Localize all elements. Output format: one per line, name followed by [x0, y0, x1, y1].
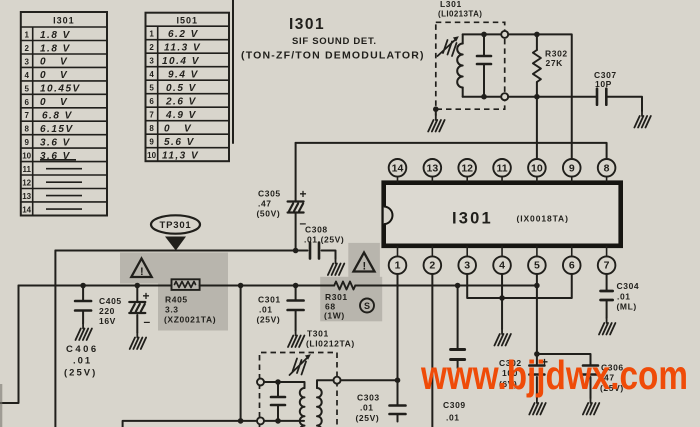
svg-text:10: 10 — [531, 162, 543, 174]
svg-text:(XZ0021TA): (XZ0021TA) — [164, 315, 216, 325]
T301 adjustable core arrow — [290, 358, 308, 376]
terminal T301 left bottom — [257, 417, 264, 424]
pin 1 — [389, 246, 407, 274]
svg-text:–: – — [144, 315, 151, 329]
svg-text:6: 6 — [24, 98, 29, 107]
capacitor C305 — [295, 143, 297, 251]
junction C305/C308 node — [293, 248, 299, 254]
svg-text:220: 220 — [99, 306, 115, 316]
svg-text:R301: R301 — [325, 292, 348, 302]
wire main bus (left segment) — [19, 285, 172, 287]
svg-text:7: 7 — [604, 260, 610, 272]
svg-text:C304: C304 — [617, 281, 640, 291]
svg-text:3.3: 3.3 — [165, 305, 179, 315]
svg-text:(LI0212TA): (LI0212TA) — [306, 339, 355, 349]
ground C306 — [583, 398, 599, 415]
svg-text:2.6 V: 2.6 V — [165, 97, 197, 108]
T301 internal top wire — [264, 381, 304, 383]
svg-text:S: S — [364, 301, 370, 311]
svg-text:(TON-ZF/TON DEMODULATOR): (TON-ZF/TON DEMODULATOR) — [241, 50, 425, 62]
svg-text:2: 2 — [24, 44, 29, 53]
svg-text:.01 (25V): .01 (25V) — [304, 235, 344, 245]
svg-text:13: 13 — [427, 162, 439, 174]
svg-text:4: 4 — [499, 260, 505, 272]
svg-text:10P: 10P — [595, 79, 612, 89]
capacitor C406 — [82, 286, 84, 324]
svg-text:C308: C308 — [305, 225, 328, 235]
T301 primary winding — [304, 382, 306, 388]
svg-text:C309: C309 — [443, 400, 466, 410]
L301 internal bottom wire — [463, 96, 502, 98]
shaded highlight area left (R405 zone) — [120, 253, 228, 284]
pin 8 — [598, 159, 616, 183]
pin 5 — [528, 246, 546, 274]
R301 value label — [324, 292, 348, 321]
IC U I301 body — [384, 183, 621, 246]
junction pin1/C303 — [395, 377, 401, 383]
wire pin 5 drop — [536, 274, 538, 354]
svg-text:C305: C305 — [258, 189, 281, 199]
svg-text:16V: 16V — [99, 316, 116, 326]
pin 3 — [458, 246, 476, 274]
pin 4 — [493, 246, 511, 274]
svg-text:5.6 V: 5.6 V — [164, 137, 195, 148]
svg-text:(LI0213TA): (LI0213TA) — [438, 10, 482, 19]
coil unit L301 label — [438, 0, 482, 19]
svg-text:6: 6 — [149, 97, 154, 106]
C307 value label — [594, 70, 617, 89]
svg-text:0 V: 0 V — [164, 124, 192, 135]
resistor R301 — [334, 282, 355, 290]
svg-text:.47: .47 — [258, 199, 272, 209]
wire T301 right terminal to pin 1 line — [341, 379, 398, 381]
C304 value label — [617, 281, 640, 312]
svg-text:5: 5 — [149, 84, 154, 93]
svg-text:C406: C406 — [66, 344, 99, 355]
svg-text:C303: C303 — [357, 393, 380, 403]
wire riser to bottom rail — [240, 286, 242, 421]
warning triangle left — [131, 259, 151, 279]
ground pin 4 — [494, 329, 510, 346]
junction R302 bottom — [534, 94, 540, 100]
resistor R302 — [536, 34, 538, 96]
terminal T301 left top — [257, 379, 264, 386]
scan page edge streak — [0, 384, 2, 427]
svg-text:L301: L301 — [440, 0, 462, 9]
capacitor C306 — [590, 377, 592, 398]
svg-text:6: 6 — [569, 260, 575, 272]
svg-text:1: 1 — [395, 260, 401, 272]
svg-text:11: 11 — [22, 165, 31, 174]
svg-text:5: 5 — [24, 84, 29, 93]
inductor L301 winding — [462, 34, 464, 96]
svg-text:10.45V: 10.45V — [40, 84, 81, 95]
wire C305 node to pin 8 — [296, 143, 607, 159]
svg-text:1.8 V: 1.8 V — [40, 30, 71, 41]
T301 secondary winding — [316, 380, 318, 388]
wire TP301 node — [55, 250, 295, 252]
capacitor C309 — [457, 286, 459, 369]
svg-text:9.4 V: 9.4 V — [168, 70, 199, 81]
svg-text:8: 8 — [149, 124, 154, 133]
svg-text:9: 9 — [569, 162, 575, 174]
svg-text:12: 12 — [461, 162, 473, 174]
svg-text:C405: C405 — [99, 296, 122, 306]
capacitor C304 — [601, 291, 613, 300]
C301 value label — [257, 295, 281, 325]
C405 value label — [99, 296, 122, 326]
svg-text:(25V): (25V) — [356, 413, 380, 423]
svg-text:13: 13 — [22, 192, 31, 201]
wire pin 2 drop (off-page) — [431, 274, 433, 427]
wire stub from top edge (off-page) — [232, 0, 234, 143]
wire T301 secondary to right terminal — [318, 379, 334, 381]
C306 value label — [600, 363, 624, 394]
wire to C306 — [537, 354, 591, 365]
pin 14 — [389, 159, 407, 183]
svg-text:.01: .01 — [259, 305, 273, 315]
warning triangle right — [354, 253, 375, 273]
voltage table I501 (right) — [146, 13, 230, 162]
transformer T301 label — [306, 329, 355, 349]
ground C405 — [130, 333, 146, 350]
svg-text:3: 3 — [24, 57, 29, 66]
L301 internal top wire — [463, 33, 502, 35]
svg-text:4.9 V: 4.9 V — [165, 110, 197, 121]
wire main bus (middle segment) — [200, 285, 335, 287]
svg-text:14: 14 — [22, 205, 31, 214]
svg-text:0 V: 0 V — [40, 97, 68, 108]
svg-text:(25V): (25V) — [64, 368, 97, 379]
title I301 SIF SOUND DET. — [241, 16, 425, 62]
svg-text:!: ! — [362, 261, 366, 273]
terminal L301 bottom — [501, 93, 508, 100]
svg-text:2: 2 — [149, 43, 154, 52]
wire pin 4 to ground — [501, 274, 503, 329]
wire left riser (off-page bottom) — [54, 251, 56, 427]
capacitor C307 — [597, 89, 606, 105]
ground C308 — [328, 259, 344, 276]
ground C406 — [76, 324, 92, 341]
voltage table I301 (left) — [21, 12, 107, 216]
pin 11 — [493, 159, 511, 183]
wire bus left drop to page edge — [0, 286, 19, 404]
C406 value label — [64, 344, 99, 379]
svg-text:11,3 V: 11,3 V — [162, 151, 199, 162]
svg-text:I501: I501 — [177, 16, 199, 26]
svg-text:T301: T301 — [307, 329, 329, 339]
wire bottom rail into T301 — [264, 420, 304, 422]
wire pin 10 riser — [536, 97, 538, 159]
ground C302 — [529, 398, 545, 415]
capacitor C405 electrolytic — [136, 286, 138, 333]
svg-text:TP301: TP301 — [160, 220, 192, 231]
svg-text:9: 9 — [24, 138, 29, 147]
svg-text:(1W): (1W) — [324, 311, 345, 321]
svg-text:+: + — [143, 289, 150, 303]
svg-text:(50V): (50V) — [257, 209, 281, 219]
test point TP301 — [151, 215, 200, 250]
terminal L301 top — [501, 31, 508, 38]
svg-text:1: 1 — [24, 31, 29, 40]
junction C301 — [293, 283, 299, 289]
svg-text:1: 1 — [149, 30, 154, 39]
svg-text:10.4 V: 10.4 V — [162, 56, 200, 67]
junction pin 4 on bus B — [499, 295, 505, 301]
junction C406 — [80, 283, 86, 289]
wire main bus (right segment) — [355, 285, 537, 287]
ground C307 — [634, 111, 650, 128]
svg-text:1.8 V: 1.8 V — [40, 43, 71, 54]
svg-text:(25V): (25V) — [257, 315, 281, 325]
terminal T301 right — [334, 377, 341, 384]
T301 shield dashed box — [260, 353, 338, 427]
svg-text:6.2 V: 6.2 V — [168, 29, 199, 40]
R405 value label — [164, 295, 216, 325]
svg-text:C301: C301 — [258, 295, 281, 305]
svg-text:11: 11 — [496, 162, 507, 174]
pin 12 — [458, 159, 476, 183]
wire pin 7 drop — [606, 274, 608, 318]
svg-text:7: 7 — [149, 111, 154, 120]
svg-text:2: 2 — [429, 260, 435, 272]
capacitor C302 electrolytic — [536, 354, 538, 398]
junction R302 top — [534, 32, 540, 38]
wire pin 3 to bus B — [467, 274, 572, 298]
svg-text:8: 8 — [24, 125, 29, 134]
svg-text:5: 5 — [534, 260, 540, 272]
svg-text:R302: R302 — [545, 49, 568, 59]
svg-text:27K: 27K — [546, 58, 564, 68]
ground C301 — [288, 331, 304, 348]
svg-text:(IX0018TA): (IX0018TA) — [517, 214, 569, 224]
capacitor C308 — [296, 251, 336, 259]
junction C302/C306 node — [534, 351, 540, 357]
svg-text:0.5 V: 0.5 V — [166, 83, 197, 94]
pin 2 — [424, 246, 442, 274]
svg-text:10: 10 — [147, 151, 156, 160]
svg-text:3: 3 — [464, 260, 470, 272]
svg-text:!: ! — [140, 266, 144, 278]
svg-text:.01: .01 — [446, 413, 460, 423]
svg-text:12: 12 — [22, 179, 31, 188]
resistor R405 — [172, 279, 200, 290]
capacitor inside L301 — [483, 34, 485, 96]
junction L301 shield corner — [433, 106, 439, 112]
svg-text:8: 8 — [604, 162, 610, 174]
wire bottom rail — [123, 421, 257, 427]
svg-text:9: 9 — [149, 138, 154, 147]
svg-text:+: + — [300, 187, 307, 201]
svg-text:.01: .01 — [73, 356, 92, 367]
wire pin 1 drop — [397, 274, 399, 422]
svg-text:R405: R405 — [165, 295, 188, 305]
C308 value label — [304, 225, 344, 245]
svg-text:4: 4 — [24, 71, 29, 80]
ground L301 shield — [435, 109, 437, 115]
svg-text:.01: .01 — [360, 403, 374, 413]
svg-text:7: 7 — [24, 111, 29, 120]
svg-text:I301: I301 — [53, 16, 75, 26]
pin 13 — [424, 159, 442, 183]
pin 9 — [563, 159, 581, 183]
C309 value label — [443, 400, 466, 423]
ground C304 — [599, 318, 615, 335]
junction bottom rail riser — [238, 418, 244, 424]
junction C405 — [135, 283, 141, 289]
junction L301 cap top — [481, 32, 487, 38]
svg-text:6.8 V: 6.8 V — [42, 111, 73, 122]
svg-text:4: 4 — [149, 70, 154, 79]
R302 value label — [545, 49, 568, 69]
svg-text:I301: I301 — [452, 210, 493, 228]
wire L301 top to pin 9 — [508, 34, 572, 158]
junction T301 cap top — [275, 379, 281, 385]
wire L301 bottom to C307 — [508, 96, 597, 98]
svg-text:0 V: 0 V — [40, 70, 68, 81]
pin 6 — [563, 246, 581, 274]
junction C309 — [455, 283, 461, 289]
svg-text:www.bjjdwx.com: www.bjjdwx.com — [420, 352, 688, 398]
capacitor C301 — [295, 286, 297, 331]
svg-text:SIF SOUND DET.: SIF SOUND DET. — [292, 36, 377, 47]
C303 value label — [356, 393, 380, 424]
junction T301 cap bottom — [275, 418, 281, 424]
svg-text:11.3 V: 11.3 V — [164, 43, 201, 54]
shaded highlight area right (R301 zone) — [348, 243, 380, 277]
capacitor inside T301 — [277, 382, 279, 421]
service mark S — [360, 299, 374, 313]
svg-text:(ML): (ML) — [617, 302, 637, 312]
L301 shield dashed box — [436, 22, 505, 109]
C302 value label — [499, 358, 522, 389]
pin 7 — [598, 246, 616, 274]
C305 value label — [257, 189, 281, 219]
svg-text:14: 14 — [392, 162, 404, 174]
pin 10 — [528, 159, 546, 183]
svg-text:10: 10 — [22, 152, 31, 161]
svg-text:3.6 V: 3.6 V — [40, 137, 71, 148]
svg-text:6.15V: 6.15V — [40, 124, 74, 135]
L301 adjustable core arrow — [438, 40, 457, 57]
svg-text:I301: I301 — [289, 16, 325, 33]
junction bottom-feed riser — [238, 283, 244, 289]
wire C307 to ground — [606, 97, 642, 111]
svg-text:.01: .01 — [617, 292, 631, 302]
junction bus end pin 5 — [534, 283, 540, 289]
capacitor C303 — [390, 406, 406, 415]
svg-text:0 V: 0 V — [40, 57, 68, 68]
junction L301 cap bottom — [481, 94, 487, 100]
svg-text:3: 3 — [149, 57, 154, 66]
